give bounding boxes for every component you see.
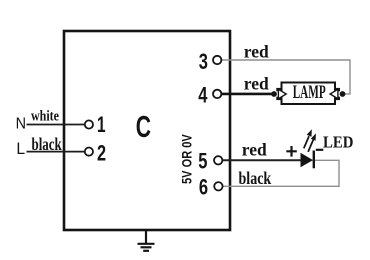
- svg-text:red: red: [244, 74, 269, 94]
- svg-text:C: C: [136, 109, 151, 144]
- svg-text:red: red: [244, 41, 269, 61]
- svg-text:5V OR 0V: 5V OR 0V: [179, 134, 194, 184]
- svg-text:4: 4: [198, 83, 207, 108]
- svg-text:black: black: [32, 135, 62, 155]
- svg-text:red: red: [242, 139, 267, 159]
- svg-text:3: 3: [199, 50, 208, 75]
- svg-text:LAMP: LAMP: [293, 82, 326, 103]
- svg-text:2: 2: [97, 141, 106, 166]
- svg-text:5: 5: [198, 149, 207, 174]
- svg-text:6: 6: [199, 175, 208, 200]
- svg-text:1: 1: [97, 113, 106, 137]
- svg-text:black: black: [239, 169, 272, 188]
- svg-text:white: white: [31, 107, 59, 124]
- svg-text:L: L: [16, 140, 25, 158]
- svg-text:N: N: [16, 115, 26, 133]
- svg-text:LED: LED: [323, 134, 353, 152]
